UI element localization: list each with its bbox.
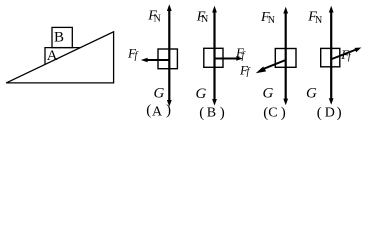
svg-text:N: N: [268, 15, 275, 26]
block A outline: [45, 48, 81, 65]
svg-text:): ): [166, 103, 171, 119]
svg-text:f: f: [348, 51, 352, 62]
svg-text:G: G: [263, 86, 274, 102]
svg-text:G: G: [196, 86, 207, 102]
FBD D: weight arrow G head: [329, 98, 334, 105]
FBD D: friction arrow up-right: [331, 50, 357, 60]
svg-text:f: f: [247, 67, 251, 78]
incline triangle: [6, 32, 113, 83]
svg-text:C: C: [268, 106, 277, 121]
FBD C: friction arrow down-left: [263, 60, 286, 69]
svg-text:(: (: [146, 103, 151, 119]
FBD D: block: [321, 48, 340, 66]
svg-text:G: G: [306, 85, 317, 101]
FBD B: friction arrow right: [215, 58, 239, 60]
FBD B: block: [204, 48, 223, 67]
svg-text:A: A: [47, 48, 58, 64]
svg-text:(: (: [199, 105, 204, 121]
FBD A: normal force arrow FN: [168, 10, 170, 102]
svg-text:): ): [337, 105, 342, 121]
svg-text:N: N: [315, 15, 322, 26]
FBD B: weight arrow G head: [212, 99, 217, 106]
svg-text:(: (: [317, 105, 322, 121]
svg-text:N: N: [154, 13, 161, 24]
FBD C: weight arrow G head: [283, 99, 288, 106]
FBD A: weight arrow G head: [167, 100, 172, 107]
svg-text:D: D: [325, 106, 335, 121]
svg-text:): ): [220, 105, 225, 121]
svg-text:B: B: [207, 106, 216, 121]
block B outline: [52, 27, 72, 47]
FBD A: friction arrow left: [147, 59, 170, 61]
svg-text:f: f: [242, 51, 246, 62]
FBD B: normal force arrow FN: [213, 11, 215, 101]
svg-text:A: A: [152, 104, 163, 119]
svg-text:f: f: [135, 51, 139, 62]
svg-text:G: G: [154, 86, 165, 102]
FBD C: block: [275, 49, 296, 68]
svg-text:B: B: [54, 29, 64, 45]
FBD C: normal force arrow FN: [285, 12, 287, 100]
FBD A: block: [158, 49, 177, 69]
FBD D: normal force arrow FN: [330, 11, 332, 100]
svg-text:): ): [281, 105, 286, 121]
svg-text:N: N: [201, 14, 208, 25]
